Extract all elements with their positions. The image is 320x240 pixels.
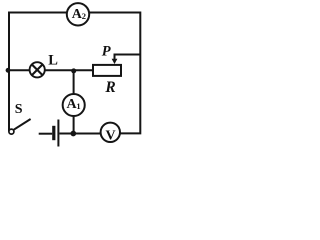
svg-text:L: L — [48, 53, 58, 69]
svg-text:S: S — [15, 102, 23, 117]
svg-text:2: 2 — [82, 11, 86, 21]
svg-text:P: P — [102, 44, 111, 60]
svg-text:V: V — [106, 128, 116, 143]
svg-text:R: R — [104, 79, 115, 96]
svg-text:1: 1 — [76, 101, 80, 111]
